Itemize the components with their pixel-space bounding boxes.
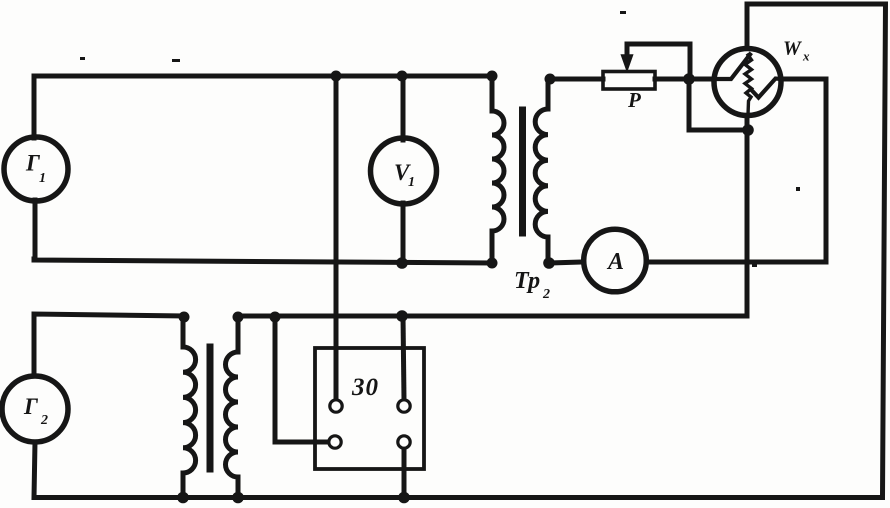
svg-text:30: 30: [351, 374, 379, 401]
svg-text:P: P: [627, 88, 641, 112]
svg-text:1: 1: [39, 171, 46, 186]
svg-text:x: x: [802, 49, 810, 64]
svg-text:W: W: [783, 38, 802, 60]
svg-text:1: 1: [408, 175, 415, 190]
svg-text:Г: Г: [23, 394, 38, 419]
svg-text:Г: Г: [25, 151, 40, 176]
svg-text:A: A: [606, 249, 624, 275]
svg-text:Тр: Тр: [514, 268, 540, 294]
svg-text:2: 2: [40, 413, 48, 428]
svg-text:2: 2: [542, 287, 550, 302]
